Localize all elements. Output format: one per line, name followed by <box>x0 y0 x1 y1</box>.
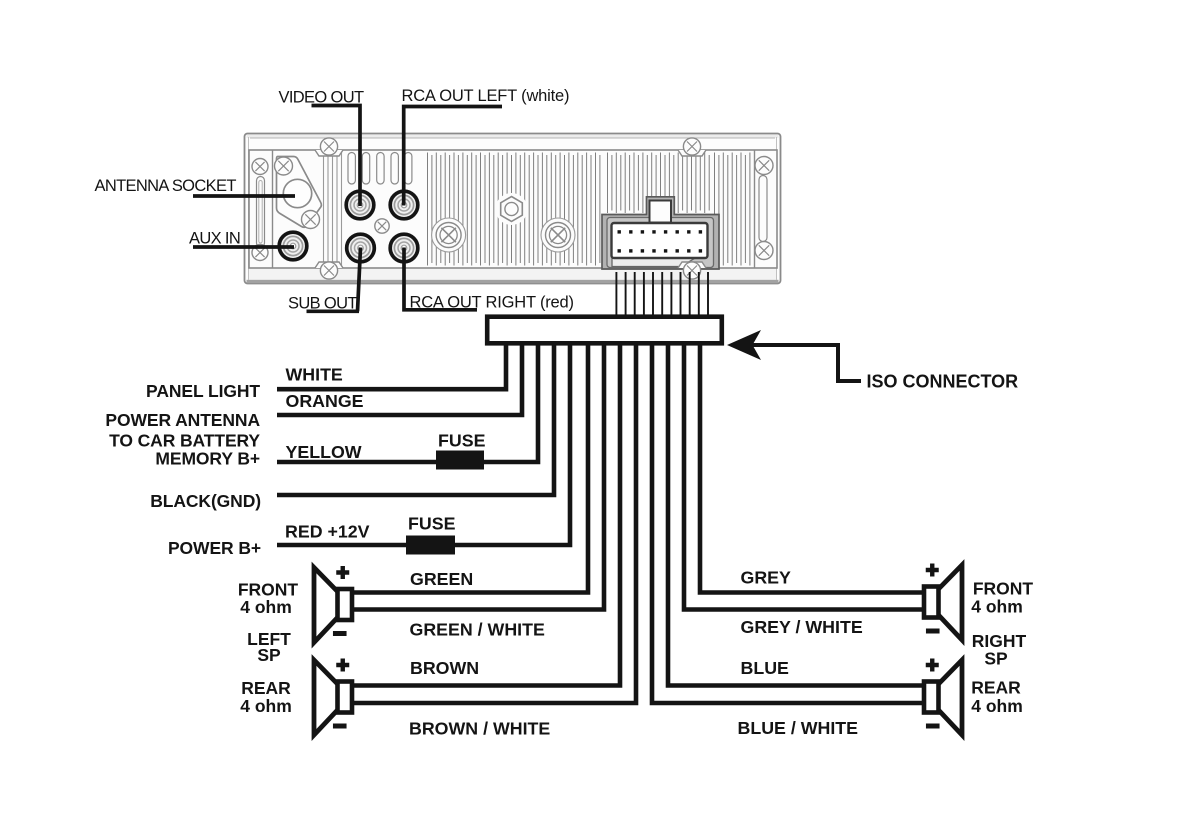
left column divider <box>272 150 274 268</box>
clearing around middle screw 1 <box>432 218 466 252</box>
left column screw top <box>252 159 268 175</box>
vent ribs above ISO recess <box>608 153 710 214</box>
top flange notch + screw right <box>678 150 706 156</box>
svg-text:VIDEO OUT: VIDEO OUT <box>279 89 364 107</box>
svg-text:REAR: REAR <box>241 678 291 698</box>
head unit chassis outer body <box>245 134 781 284</box>
wire WHITE <box>277 345 506 389</box>
leader line RCA OUT RIGHT <box>404 248 477 310</box>
wire GREEN <box>352 345 588 593</box>
svg-text:FRONT: FRONT <box>973 579 1034 599</box>
svg-text:GREEN: GREEN <box>410 569 473 589</box>
wire BLACK GND <box>277 345 554 495</box>
svg-text:PANEL LIGHT: PANEL LIGHT <box>146 381 260 401</box>
VIDEO OUT jack <box>346 191 374 219</box>
RCA OUT RIGHT jack <box>390 234 418 262</box>
antenna socket <box>283 179 311 207</box>
screw between RCA jacks <box>375 219 389 233</box>
svg-text:RED +12V: RED +12V <box>285 522 370 542</box>
svg-text:FUSE: FUSE <box>408 514 456 534</box>
ISO connector arrow <box>752 345 861 381</box>
svg-text:ISO CONNECTOR: ISO CONNECTOR <box>867 372 1019 392</box>
ISO connector recess <box>602 197 719 269</box>
speaker REAR LEFT <box>314 660 338 735</box>
svg-text:POWER ANTENNA: POWER ANTENNA <box>105 410 260 430</box>
wire RED +12V <box>277 345 570 545</box>
leader line AUX IN <box>193 245 294 249</box>
svg-text:GREEN / WHITE: GREEN / WHITE <box>410 620 545 640</box>
fuse on yellow wire <box>436 451 484 470</box>
wire BLUE <box>668 345 924 686</box>
svg-text:4 ohm: 4 ohm <box>240 597 292 617</box>
leader line SUB OUT <box>307 248 361 312</box>
svg-text:REAR: REAR <box>971 678 1021 698</box>
ISO recess inner step <box>607 218 714 268</box>
speaker REAR RIGHT <box>939 660 963 735</box>
wire BLUE/WHITE <box>652 345 924 703</box>
right column screw top <box>755 157 773 175</box>
chassis recessed face <box>249 150 777 268</box>
AUX IN jack <box>279 232 307 260</box>
svg-text:BLACK(GND): BLACK(GND) <box>150 491 261 511</box>
svg-text:FUSE: FUSE <box>438 431 486 451</box>
plate screw bottom <box>302 211 320 229</box>
vent slots above RCA block <box>348 153 355 185</box>
svg-text:ORANGE: ORANGE <box>286 391 364 411</box>
leader line VIDEO OUT <box>312 106 361 207</box>
left column slot <box>257 177 265 248</box>
right column slot <box>759 176 767 242</box>
svg-text:POWER B+: POWER B+ <box>168 538 261 558</box>
svg-text:4 ohm: 4 ohm <box>971 696 1023 716</box>
svg-text:RCA OUT RIGHT (red): RCA OUT RIGHT (red) <box>410 294 574 312</box>
harness bar (ISO connector block) <box>487 317 722 344</box>
svg-text:BROWN / WHITE: BROWN / WHITE <box>409 719 550 739</box>
svg-text:ANTENNA SOCKET: ANTENNA SOCKET <box>95 177 237 195</box>
svg-text:GREY: GREY <box>741 568 792 588</box>
SUB OUT jack <box>347 234 375 262</box>
wire BROWN/WHITE <box>352 345 636 703</box>
plate screw top <box>275 157 293 175</box>
wire BROWN <box>352 345 620 686</box>
svg-text:GREY / WHITE: GREY / WHITE <box>741 617 863 637</box>
ISO socket foot <box>612 258 696 267</box>
thin wires from ISO socket to harness bar <box>616 272 708 318</box>
wire YELLOW <box>277 345 538 462</box>
middle panel screw 1 <box>436 223 461 248</box>
speaker FRONT RIGHT <box>939 565 963 640</box>
left column screw bottom <box>252 245 268 261</box>
wire ORANGE <box>277 345 522 415</box>
fuse on red wire <box>406 536 455 555</box>
RCA OUT LEFT jack <box>390 191 418 219</box>
svg-text:BLUE / WHITE: BLUE / WHITE <box>738 718 859 738</box>
ISO socket body <box>612 223 708 258</box>
ISO socket key tab <box>650 201 672 223</box>
wire GREY <box>700 345 924 593</box>
right column screw bottom <box>755 242 773 260</box>
svg-text:RCA OUT LEFT (white): RCA OUT LEFT (white) <box>402 87 570 105</box>
svg-text:4 ohm: 4 ohm <box>240 696 292 716</box>
svg-text:BROWN: BROWN <box>410 658 479 678</box>
svg-text:SUB OUT: SUB OUT <box>288 295 357 313</box>
clearing around middle screw 2 <box>541 218 575 252</box>
middle vent rib field <box>428 153 600 266</box>
middle panel screw 2 <box>546 223 571 248</box>
leader line ANTENNA SOCKET <box>193 194 295 198</box>
svg-text:4 ohm: 4 ohm <box>971 597 1023 617</box>
svg-text:SP: SP <box>984 649 1008 669</box>
top flange notch + screw left <box>315 150 343 156</box>
vent ribs right of ISO recess <box>715 153 750 266</box>
bottom flange notch + screw left <box>315 262 343 268</box>
svg-text:BLUE: BLUE <box>741 658 790 678</box>
svg-text:WHITE: WHITE <box>286 365 343 385</box>
hex nut <box>501 197 523 222</box>
svg-text:YELLOW: YELLOW <box>286 442 362 462</box>
leader line RCA OUT LEFT <box>404 107 502 206</box>
speaker FRONT LEFT <box>314 568 338 643</box>
right column divider <box>754 150 756 268</box>
svg-text:MEMORY B+: MEMORY B+ <box>155 449 260 469</box>
bottom flange notch + screw right <box>678 262 706 268</box>
wire GREEN/WHITE <box>352 345 604 610</box>
svg-text:AUX IN: AUX IN <box>189 230 240 248</box>
svg-text:SP: SP <box>257 645 281 665</box>
antenna mounting plate <box>277 157 322 228</box>
ISO socket pins <box>618 230 703 252</box>
clearing around hex nut <box>496 193 528 225</box>
svg-text:TO CAR BATTERY: TO CAR BATTERY <box>109 431 260 451</box>
wire GREY/WHITE <box>684 345 924 610</box>
vent ribs left of RCA block <box>323 152 325 266</box>
